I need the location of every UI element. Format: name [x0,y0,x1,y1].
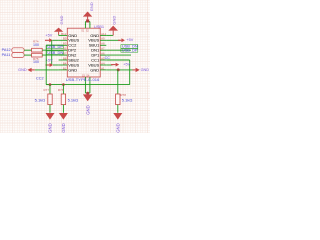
svg-text:GND: GND [90,67,99,72]
svg-text:GND: GND [48,123,53,133]
svg-text:A4: A4 [101,61,105,65]
svg-text:CC2: CC2 [36,76,44,80]
svg-text:+5V: +5V [123,63,130,67]
svg-text:+5V: +5V [126,38,133,42]
svg-text:100: 100 [33,43,39,47]
svg-text:GND: GND [116,123,121,133]
svg-text:GND: GND [141,68,150,72]
svg-text:+5V: +5V [45,34,52,38]
svg-text:GND: GND [18,68,27,72]
svg-text:PA11: PA11 [2,53,11,57]
svg-text:A9: A9 [101,37,105,41]
svg-text:B4: B4 [63,61,67,65]
svg-text:GND: GND [59,15,64,24]
svg-text:GND: GND [89,2,94,11]
svg-text:B1: B1 [63,66,67,70]
svg-text:USB_DP: USB_DP [122,48,138,53]
svg-text:GND: GND [68,67,77,72]
svg-text:GND: GND [85,105,90,115]
svg-text:+5V: +5V [46,59,53,63]
svg-text:USB_DP: USB_DP [47,44,63,49]
svg-text:5.1kΩ: 5.1kΩ [68,97,79,102]
svg-text:USB-TYPE-C-016: USB-TYPE-C-016 [66,77,100,82]
svg-text:USB1: USB1 [94,24,104,29]
svg-text:B9: B9 [63,37,67,41]
svg-text:CC: CC [105,56,111,60]
svg-text:GND: GND [111,16,116,25]
svg-text:PA12: PA12 [2,48,11,52]
svg-text:B8: B8 [63,56,67,60]
svg-text:A7: A7 [101,47,105,51]
svg-text:A12: A12 [101,32,107,36]
svg-text:R77: R77 [44,88,50,92]
svg-text:A1: A1 [101,66,105,70]
svg-text:R76: R76 [58,88,64,92]
svg-text:5.1kΩ: 5.1kΩ [122,97,133,102]
svg-text:A6: A6 [101,52,105,56]
svg-text:100: 100 [33,60,39,64]
svg-text:B12: B12 [61,32,67,36]
svg-text:A8: A8 [101,42,105,46]
svg-text:USB_DN: USB_DN [47,50,63,55]
svg-text:5.1kΩ: 5.1kΩ [35,97,46,102]
svg-text:GND: GND [61,123,66,133]
